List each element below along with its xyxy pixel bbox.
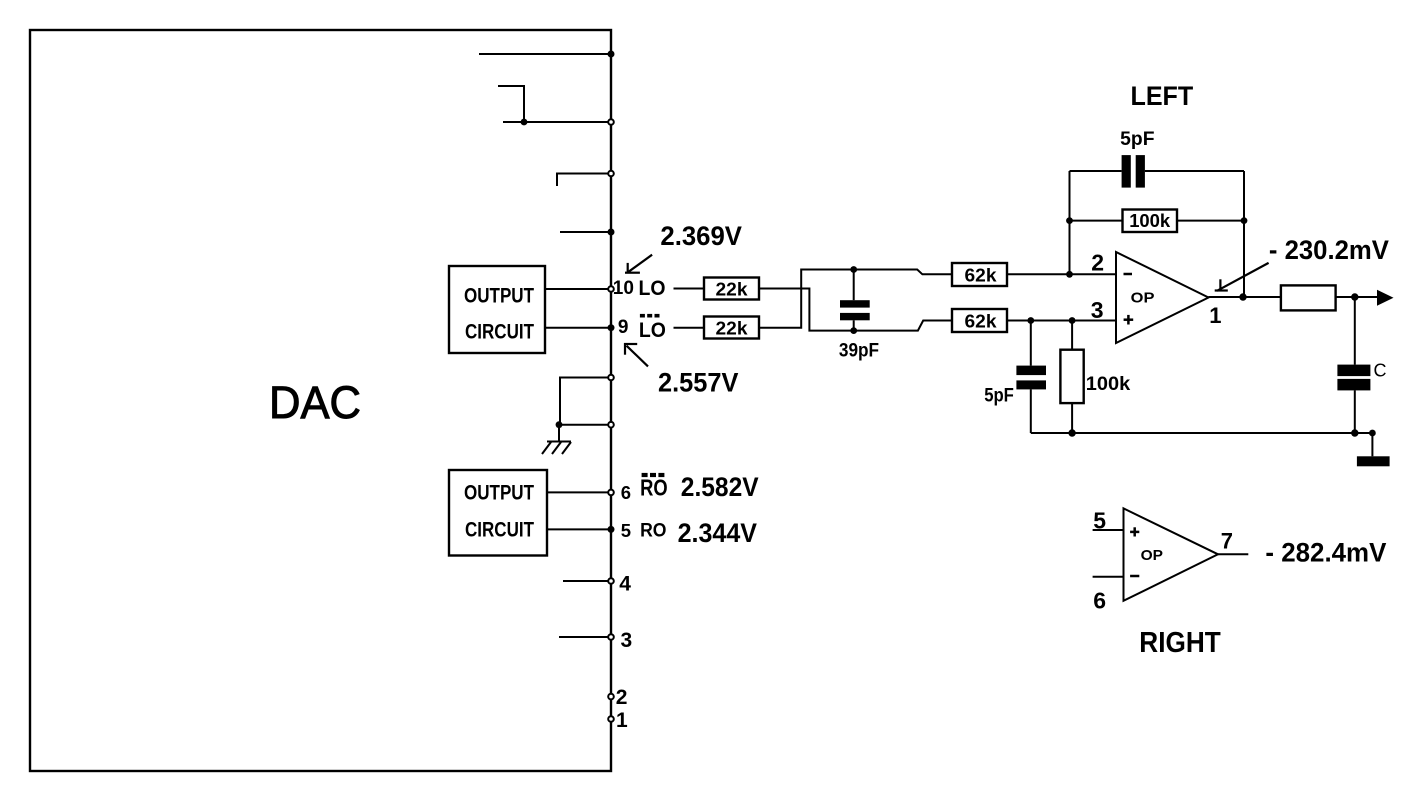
op-amp U1 minus sign <box>1124 273 1133 276</box>
feedback 100k row wire right <box>1177 220 1244 222</box>
op-amp U2 RIGHT <box>1124 508 1219 600</box>
svg-text:100k: 100k <box>1086 373 1131 395</box>
junction dot 39pF bottom <box>850 327 857 334</box>
resistor output series <box>1281 285 1336 310</box>
svg-text:5pF: 5pF <box>1120 129 1154 150</box>
svg-text:22k: 22k <box>716 280 749 300</box>
svg-text:62k: 62k <box>965 312 998 332</box>
feedback left vertical wire <box>1069 171 1071 274</box>
svg-text:2.582V: 2.582V <box>681 472 759 502</box>
DAC block outline <box>30 30 611 771</box>
junction dot rail ground <box>1369 430 1376 437</box>
pin 8 <box>608 375 614 381</box>
svg-text:2: 2 <box>1091 249 1104 275</box>
svg-text:5pF: 5pF <box>984 386 1014 407</box>
svg-text:LEFT: LEFT <box>1131 81 1194 111</box>
svg-text:2.557V: 2.557V <box>658 368 739 398</box>
pin 14 <box>608 51 615 58</box>
svg-text:5: 5 <box>1093 508 1106 534</box>
svg-text:OUTPUT: OUTPUT <box>464 284 534 307</box>
capacitor 5pF at +input <box>1016 366 1046 390</box>
wire crossover from 22k top to lower node <box>759 289 854 331</box>
pin 13 <box>608 119 614 125</box>
wire op-amp output <box>1209 296 1281 298</box>
svg-text:4: 4 <box>619 572 631 595</box>
junction dot rail 100k <box>1068 429 1075 436</box>
svg-text:22k: 22k <box>716 319 749 339</box>
svg-text:RO: RO <box>640 475 668 501</box>
op-amp U1 LEFT <box>1116 252 1209 343</box>
wire LO to R1 <box>674 288 705 290</box>
svg-text:- 282.4mV: - 282.4mV <box>1265 538 1386 568</box>
resistor 22k bottom <box>704 317 759 339</box>
pin 10 <box>608 286 614 292</box>
wire pin3 internal <box>559 636 611 638</box>
arrow to pin 9 <box>624 343 648 366</box>
wire output to cap C <box>1354 297 1356 365</box>
svg-text:LO: LO <box>639 276 666 300</box>
pin 5 <box>608 526 615 533</box>
svg-text:OUTPUT: OUTPUT <box>464 482 534 505</box>
feedback 100k row wire left <box>1070 220 1123 222</box>
op-amp U2 minus sign <box>1130 575 1139 578</box>
junction dot inverting input <box>1066 271 1073 278</box>
capacitor 5pF feedback <box>1122 155 1145 188</box>
wire pin7 internal <box>559 424 611 426</box>
svg-text:100k: 100k <box>1129 210 1171 231</box>
wire pin6 to output circuit <box>547 491 611 493</box>
wire pin13 internal vertical <box>498 86 524 122</box>
pin 2 <box>608 694 614 700</box>
wire cap C to rail <box>1354 390 1356 433</box>
wire pin13 internal horizontal <box>503 121 611 123</box>
wire pin5 to output circuit <box>547 528 611 530</box>
junction dot rail cap C <box>1351 429 1358 436</box>
svg-text:6: 6 <box>1093 588 1106 614</box>
svg-text:- 230.2mV: - 230.2mV <box>1269 235 1389 265</box>
wire LO-bar to R2 <box>674 327 705 329</box>
wire U2 pin6 <box>1093 576 1124 578</box>
svg-text:10: 10 <box>613 278 634 299</box>
svg-text:3: 3 <box>621 629 633 652</box>
wire pin10 to output circuit <box>545 288 611 290</box>
ground bar symbol <box>1357 456 1390 466</box>
resistor 22k top <box>704 278 759 300</box>
wire pin9 to output circuit <box>545 327 611 329</box>
op-amp U1 plus sign <box>1124 318 1134 321</box>
svg-text:1: 1 <box>1209 303 1221 328</box>
svg-text:OP: OP <box>1141 547 1163 564</box>
output arrowhead <box>1377 290 1394 306</box>
junction dot 39pF top <box>850 266 857 273</box>
capacitor 39pF <box>840 300 870 320</box>
junction dot 100k at +input <box>1069 317 1076 324</box>
svg-text:2.369V: 2.369V <box>660 221 742 251</box>
svg-text:2.344V: 2.344V <box>678 518 758 548</box>
svg-text:DAC: DAC <box>269 377 361 428</box>
wire pin11 internal <box>560 231 611 233</box>
junction dot feedback right <box>1241 217 1248 224</box>
resistor 62k top <box>952 263 1007 286</box>
ground rail wire <box>1031 432 1373 434</box>
svg-text:LO: LO <box>639 318 666 342</box>
feedback right vertical wire <box>1243 171 1245 297</box>
svg-text:62k: 62k <box>965 266 998 286</box>
wire rail to ground <box>1371 433 1373 456</box>
wire pin12 internal L <box>557 174 611 187</box>
svg-text:1: 1 <box>616 709 628 732</box>
feedback top wire right <box>1145 170 1244 172</box>
junction dot output cap <box>1351 293 1358 300</box>
wire pin7 ground stub <box>558 425 560 442</box>
wire crossover from 22k bottom to upper node <box>759 270 854 328</box>
junction dot 5pF at +input <box>1027 317 1034 324</box>
pin 3 <box>608 634 614 640</box>
wire lower node to jog <box>854 321 952 331</box>
OUTPUT CIRCUIT box left channel <box>449 266 545 353</box>
wire upper node to jog <box>854 270 952 275</box>
feedback top wire left <box>1070 170 1122 172</box>
svg-text:7: 7 <box>1221 528 1233 553</box>
op-amp U2 plus sign <box>1130 531 1139 534</box>
svg-text:3: 3 <box>1091 297 1104 323</box>
wire pin8 internal <box>560 378 611 425</box>
svg-text:OP: OP <box>1131 290 1155 307</box>
junction dot output feedback <box>1239 293 1246 300</box>
wire 62k bottom to op-amp non-inverting input <box>1007 320 1116 322</box>
wire output to arrow <box>1336 296 1378 298</box>
svg-text:RIGHT: RIGHT <box>1139 627 1221 659</box>
junction dot pin7 ground <box>556 421 563 428</box>
pin 7 <box>608 422 614 428</box>
pin 11 <box>608 229 615 236</box>
svg-text:CIRCUIT: CIRCUIT <box>465 321 534 344</box>
arrow to pin 10 <box>625 255 652 274</box>
junction dot pin13 step <box>521 119 528 126</box>
svg-text:5: 5 <box>621 520 631 541</box>
pin 1 <box>608 716 614 722</box>
svg-text:RO: RO <box>640 520 666 541</box>
wire U2 output <box>1218 553 1248 555</box>
pin 6 <box>608 490 614 496</box>
junction dot feedback left <box>1066 217 1073 224</box>
pin 12 <box>608 171 614 177</box>
svg-text:39pF: 39pF <box>839 341 879 362</box>
arrow to op-amp output <box>1215 263 1269 291</box>
resistor 100k feedback <box>1123 210 1178 233</box>
svg-text:2: 2 <box>616 686 628 709</box>
svg-text:6: 6 <box>621 482 631 503</box>
pin 4 <box>608 578 614 584</box>
wire 62k top to op-amp inverting input <box>1007 273 1116 275</box>
pin 9 <box>608 324 615 331</box>
ground chassis symbol <box>542 442 571 455</box>
svg-text:CIRCUIT: CIRCUIT <box>465 519 534 542</box>
OUTPUT CIRCUIT box right channel <box>449 470 547 556</box>
wire pin14 internal <box>479 53 611 55</box>
resistor 100k at +input <box>1060 350 1083 403</box>
svg-text:C: C <box>1374 361 1387 381</box>
resistor 62k bottom <box>952 309 1007 332</box>
wire U2 pin5 <box>1093 529 1124 531</box>
capacitor C <box>1337 365 1370 391</box>
svg-text:9: 9 <box>618 317 629 338</box>
wire pin4 internal <box>563 580 611 582</box>
